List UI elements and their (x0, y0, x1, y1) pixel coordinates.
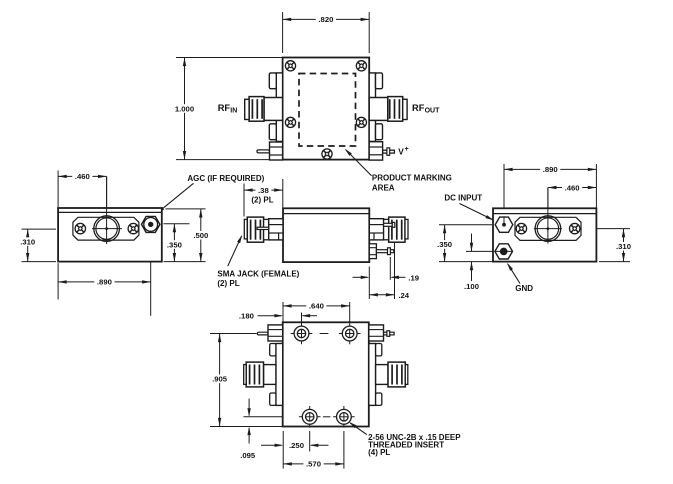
svg-text:.180: .180 (239, 311, 254, 320)
svg-text:(4) PL: (4) PL (368, 448, 390, 457)
svg-text:.890: .890 (97, 278, 112, 287)
svg-text:.640: .640 (309, 302, 324, 311)
svg-text:SMA JACK (FEMALE): SMA JACK (FEMALE) (217, 270, 299, 279)
svg-text:.100: .100 (464, 282, 479, 291)
svg-text:.250: .250 (289, 441, 304, 450)
svg-text:OUT: OUT (425, 108, 441, 115)
svg-text:.500: .500 (193, 231, 208, 240)
svg-text:AGC (IF REQUIRED): AGC (IF REQUIRED) (187, 174, 264, 183)
svg-text:AREA: AREA (372, 184, 395, 193)
svg-text:1.000: 1.000 (175, 104, 194, 113)
svg-text:.310: .310 (20, 237, 35, 246)
svg-text:.890: .890 (543, 165, 558, 174)
svg-text:.350: .350 (437, 240, 452, 249)
svg-text:.38: .38 (258, 186, 269, 195)
svg-text:(2) PL: (2) PL (251, 195, 273, 204)
svg-text:.095: .095 (240, 451, 256, 460)
svg-text:DC INPUT: DC INPUT (444, 194, 482, 203)
svg-text:.310: .310 (616, 242, 631, 251)
svg-text:.460: .460 (75, 172, 90, 181)
svg-text:.24: .24 (398, 291, 409, 300)
svg-text:PRODUCT MARKING: PRODUCT MARKING (372, 173, 452, 182)
svg-text:IN: IN (230, 108, 237, 115)
svg-text:RF: RF (218, 103, 231, 113)
svg-text:.460: .460 (565, 183, 580, 192)
svg-text:RF: RF (412, 103, 425, 113)
svg-text:+: + (405, 146, 409, 153)
svg-text:V: V (398, 146, 404, 156)
svg-text:GND: GND (515, 284, 533, 293)
svg-text:.350: .350 (167, 240, 182, 249)
svg-text:(2) PL: (2) PL (217, 279, 239, 288)
svg-text:.820: .820 (318, 15, 333, 24)
svg-text:.905: .905 (212, 375, 228, 384)
svg-text:.19: .19 (408, 273, 419, 282)
svg-text:.570: .570 (306, 460, 321, 469)
